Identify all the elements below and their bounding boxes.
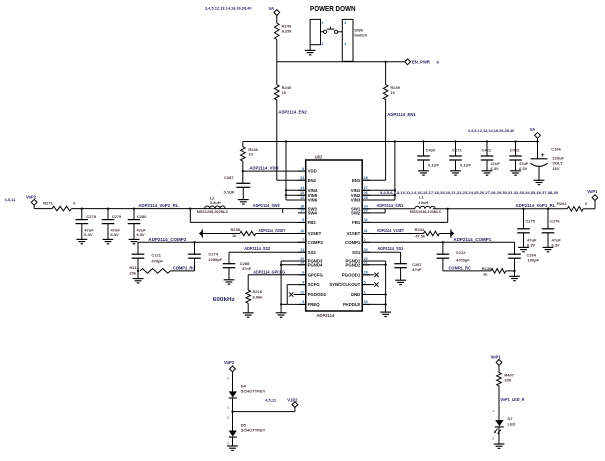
capacitor C287 0.1UF — [242, 171, 244, 183]
resistor R240 10 — [275, 85, 280, 100]
svg-text:C106: C106 — [551, 146, 561, 151]
ground (diode stack) — [227, 445, 238, 447]
capacitor C121 470pF — [137, 242, 139, 254]
wire SW1 — [362, 208, 415, 210]
svg-text:PGOOD1: PGOOD1 — [342, 272, 361, 277]
wire VoP2 rail — [71, 208, 305, 210]
switch SW6 right body — [342, 19, 353, 61]
svg-text:EN2: EN2 — [308, 178, 317, 183]
svg-text:C274: C274 — [208, 252, 218, 257]
svg-text:L1: L1 — [419, 195, 424, 200]
wire left VIN drop — [285, 142, 287, 201]
svg-text:SS2: SS2 — [308, 250, 317, 255]
svg-text:7: 7 — [302, 238, 304, 242]
junction diode node — [231, 410, 233, 412]
svg-text:D5: D5 — [241, 422, 247, 427]
junction VIN/C272 — [454, 140, 456, 142]
capacitor C106 220uF polarized — [537, 142, 539, 159]
svg-text:6.3V: 6.3V — [527, 242, 536, 247]
pin 24 SW1 (right) — [362, 208, 370, 210]
svg-text:3: 3 — [344, 42, 346, 46]
resistor R235 1k — [240, 231, 256, 236]
svg-text:2: 2 — [364, 238, 366, 242]
svg-text:4: 4 — [344, 21, 346, 25]
svg-text:16V: 16V — [552, 166, 559, 171]
switch pushbutton actuator — [327, 28, 335, 30]
junction VIN/C422 — [514, 140, 516, 142]
wire tie to R235 — [202, 233, 240, 235]
svg-text:3,4,5,6,7,8,10,11,14,16,15,17,: 3,4,5,6,7,8,10,11,14,16,15,17,18,19,20,2… — [380, 190, 558, 195]
wire bus to R240 — [276, 62, 278, 85]
wire FB2 sense — [189, 209, 191, 223]
svg-text:3: 3 — [302, 300, 304, 304]
node tie symbol (V1SET) — [450, 229, 452, 237]
ground (C288) — [224, 279, 235, 281]
wire EN2 to pin 13 — [276, 100, 278, 180]
svg-text:R216: R216 — [253, 289, 263, 294]
capacitor C275 47uF 6.3V — [523, 209, 525, 229]
svg-text:6: 6 — [302, 271, 304, 275]
ground (R216) — [243, 312, 254, 314]
wire SS2 — [229, 251, 306, 253]
svg-text:ADP2114_SW1: ADP2114_SW1 — [377, 203, 405, 208]
svg-text:COMP2: COMP2 — [308, 240, 324, 245]
ground (C287) — [238, 199, 249, 201]
pin 4 SCFG (left) — [298, 284, 306, 286]
svg-text:VA: VA — [530, 127, 536, 132]
wire VIN5 stub — [286, 194, 306, 196]
resistor R130 1k — [491, 269, 506, 274]
svg-text:C420: C420 — [426, 147, 436, 152]
svg-text:ADP2114_SS2: ADP2114_SS2 — [244, 246, 271, 251]
wire VoP2 to rail — [33, 205, 35, 208]
resistor R216 8.06k — [246, 290, 251, 303]
junction VIN/C420 — [422, 140, 424, 142]
capacitor C276 47uF 6.3V — [547, 209, 549, 229]
resistor R243 8.25k — [275, 23, 280, 40]
ground (C420) — [418, 170, 429, 172]
wire pin31 to R234 — [362, 233, 423, 235]
svg-text:PGND4: PGND4 — [308, 262, 323, 267]
svg-text:C278: C278 — [86, 214, 96, 219]
svg-text:3,4,5,12,13,14,16,26,28,40: 3,4,5,12,13,14,16,26,28,40 — [205, 6, 252, 11]
wire VIN3 stub — [362, 199, 395, 201]
junction VIN4 — [285, 189, 287, 191]
svg-text:VA: VA — [269, 6, 275, 11]
junction PADDLE/rail — [384, 303, 386, 305]
svg-text:R271: R271 — [43, 201, 53, 206]
wire GPCFG — [248, 274, 306, 276]
junction VIN2 — [394, 194, 396, 196]
svg-text:+: + — [541, 152, 545, 159]
svg-text:COMP1_RC: COMP1_RC — [449, 266, 472, 271]
svg-text:11: 11 — [300, 248, 304, 252]
capacitor C279 47uF 6.3V — [107, 209, 109, 220]
pin 23 SW2 (right) — [362, 212, 370, 214]
wire R246 drop — [242, 142, 244, 147]
junction VIN1 — [394, 189, 396, 191]
pin 1 GND (right) — [362, 294, 370, 296]
junction VIN/C421 — [486, 140, 488, 142]
svg-text:47.5k: 47.5k — [415, 234, 426, 239]
resistor R407 200 — [497, 373, 502, 386]
svg-text:SW2: SW2 — [351, 211, 361, 216]
svg-text:6.3V: 6.3V — [111, 232, 120, 237]
svg-text:C422: C422 — [510, 147, 520, 152]
pin 8 VDD (left) — [298, 170, 306, 172]
switch SW6 left body — [310, 19, 320, 44]
svg-text:ADP2114: ADP2114 — [316, 313, 335, 318]
svg-text:1k: 1k — [483, 271, 488, 276]
diode D5 SCHOTTKY — [229, 431, 237, 437]
wire FB1 sense — [447, 209, 449, 223]
pin 32 FB1 (right) — [362, 221, 370, 223]
pin 31 V1SET (right) — [362, 232, 370, 234]
svg-text:6.3V: 6.3V — [552, 242, 561, 247]
wire SW3/SW4 link — [282, 209, 284, 213]
wire EN_PWR bus — [277, 61, 405, 63]
svg-text:16: 16 — [300, 196, 304, 200]
junction COMP1/C122 — [442, 241, 444, 243]
ground (C121 node) — [137, 271, 139, 279]
svg-text:C280: C280 — [137, 214, 147, 219]
svg-text:26: 26 — [364, 191, 368, 195]
svg-text:1: 1 — [364, 290, 366, 294]
wire node to D5 — [232, 412, 234, 431]
svg-text:VDD: VDD — [308, 169, 317, 174]
junction VIN/right drop — [394, 140, 396, 142]
resistor R234 47.5k — [424, 231, 440, 236]
capacitor C422 47uF 6.3V — [515, 142, 517, 157]
svg-text:FREQ: FREQ — [308, 302, 321, 307]
svg-text:V1SET: V1SET — [347, 231, 361, 236]
svg-text:5: 5 — [364, 280, 366, 284]
svg-text:1: 1 — [322, 21, 324, 25]
svg-text:ADP2114_GPCFG: ADP2114_GPCFG — [253, 270, 285, 275]
wire GND pin — [362, 294, 385, 296]
node tie symbol (V2SET) — [201, 229, 203, 237]
svg-text:4,5,11: 4,5,11 — [265, 398, 277, 403]
svg-text:10: 10 — [248, 152, 253, 157]
no-connect X pin 29 — [362, 274, 374, 276]
junction C121/R213/gnd — [137, 270, 139, 272]
inductor L1 10uH — [415, 206, 435, 209]
pin 33 PADDLE (right) — [362, 303, 370, 305]
wire VIN6 stub — [286, 199, 306, 201]
wire left PGND rail — [281, 260, 306, 262]
capacitor C420 0.1UF — [423, 142, 425, 157]
capacitor C421 47uF 6.3V — [486, 142, 488, 157]
wire R213 to C274 — [170, 270, 194, 272]
svg-text:R235: R235 — [231, 227, 241, 232]
ground (C421) — [482, 170, 493, 172]
wire C122 to R130 — [443, 270, 491, 272]
diode D4 SCHOTTKY — [229, 391, 237, 397]
svg-text:VIN6: VIN6 — [308, 198, 318, 203]
junction rail/C276 — [547, 208, 549, 210]
wire EN1 to pin 28 — [385, 100, 387, 181]
svg-text:32: 32 — [364, 218, 368, 222]
svg-text:6.3V: 6.3V — [137, 232, 146, 237]
svg-text:13: 13 — [300, 176, 304, 180]
pin 13 EN2 (left) — [298, 179, 306, 181]
op-amp U62 ADP2114 body — [306, 160, 363, 311]
wire switch to ground — [309, 45, 311, 51]
svg-text:V2SET: V2SET — [308, 231, 322, 236]
svg-text:31: 31 — [364, 229, 368, 233]
svg-text:FB2: FB2 — [308, 220, 317, 225]
ground (left PGND) — [276, 312, 287, 314]
svg-text:0.1UF: 0.1UF — [224, 190, 235, 195]
svg-text:10uH: 10uH — [419, 200, 429, 205]
svg-text:R213: R213 — [129, 265, 139, 270]
pin 20 PGND3 (left) — [298, 260, 306, 262]
svg-text:ADP2114_EN2: ADP2114_EN2 — [278, 109, 307, 114]
wire VoP1 rail — [433, 208, 568, 210]
wire right VIN drop — [394, 142, 396, 201]
svg-text:20k: 20k — [129, 271, 136, 276]
wire contact to right body — [338, 31, 343, 33]
svg-text:VoP2: VoP2 — [26, 195, 37, 200]
switch contact circle right — [334, 30, 337, 33]
svg-text:6.3V: 6.3V — [519, 166, 528, 171]
svg-text:D4: D4 — [241, 383, 247, 388]
junction COMP2/C274 — [193, 241, 195, 243]
no-connect X pin 5 — [362, 284, 374, 286]
pin 7 COMP2 (left) — [298, 241, 306, 243]
pin 18 SW3 (left) — [298, 208, 306, 210]
junction rail/C278 — [81, 207, 83, 209]
ground (C278) — [76, 238, 87, 240]
svg-text:2200pF: 2200pF — [208, 257, 222, 262]
ground (right PGND) — [380, 311, 391, 313]
resistor R271 0 — [52, 206, 71, 211]
svg-text:0.1UF: 0.1UF — [460, 163, 471, 168]
svg-text:2: 2 — [322, 42, 324, 46]
capacitor C288 47nF — [223, 263, 236, 265]
wire R130 to node — [506, 270, 515, 272]
svg-text:SS1: SS1 — [352, 250, 361, 255]
svg-text:17: 17 — [300, 209, 304, 213]
svg-text:28: 28 — [364, 176, 368, 180]
svg-text:9: 9 — [302, 218, 304, 222]
wire SS1 — [362, 251, 400, 253]
capacitor C122 4700pF — [442, 242, 444, 254]
wire VIN1 stub — [362, 189, 395, 191]
svg-text:C272: C272 — [452, 147, 462, 152]
pin 29 PGOOD1 (right) — [362, 274, 370, 276]
svg-text:D7: D7 — [508, 416, 514, 421]
wire R216 to ground — [247, 303, 249, 313]
svg-text:C279: C279 — [112, 214, 122, 219]
wire VoP1 to R407 — [498, 365, 500, 372]
wire bus to R239 — [385, 62, 387, 85]
svg-text:12: 12 — [300, 290, 304, 294]
wire SW2 link — [362, 212, 385, 214]
svg-text:ADP2114_V2SET: ADP2114_V2SET — [259, 228, 286, 233]
pin 14 VIN4 (left) — [298, 189, 306, 191]
pin 22 PGND1 (right) — [362, 260, 370, 262]
pin 2 COMP1 (right) — [362, 241, 370, 243]
svg-text:29: 29 — [364, 271, 368, 275]
ground (C275) — [518, 246, 529, 248]
svg-text:3.3uH: 3.3uH — [210, 200, 221, 205]
junction VIN/left drop — [285, 140, 287, 142]
svg-text:C275: C275 — [525, 218, 535, 223]
pin 6 GPCFG (left) — [298, 274, 306, 276]
svg-text:8.06k: 8.06k — [253, 295, 264, 300]
svg-text:ADP2114_COMP2: ADP2114_COMP2 — [148, 237, 187, 242]
svg-text:30: 30 — [364, 248, 368, 252]
svg-text:ADP2114_VoP1_RL: ADP2114_VoP1_RL — [516, 203, 556, 208]
wire COMP1 — [362, 241, 514, 243]
ground (C272) — [450, 170, 461, 172]
wire VoP2 to D4 — [232, 372, 234, 392]
svg-text:R202: R202 — [557, 201, 567, 206]
capacitor C280 47uF 6.3V — [133, 209, 135, 220]
svg-text:15: 15 — [300, 191, 304, 195]
wire R234 to tie — [439, 233, 451, 235]
capacitor C267 47nF — [394, 263, 407, 265]
svg-text:100pF: 100pF — [528, 257, 540, 262]
ground (C264 node) — [514, 271, 516, 276]
svg-text:C122: C122 — [456, 250, 466, 255]
pin 27 VIN1 (right) — [362, 189, 370, 191]
svg-text:Switch: Switch — [354, 32, 367, 37]
svg-text:R130: R130 — [482, 266, 492, 271]
pin 10 V2SET (left) — [298, 232, 306, 234]
svg-text:PADDLE: PADDLE — [343, 302, 360, 307]
wire D4 to node — [232, 398, 234, 412]
wire R202 to VoP1 — [583, 208, 595, 210]
pin 26 VIN2 (right) — [362, 194, 370, 196]
svg-text:200: 200 — [504, 378, 511, 383]
svg-text:COMP2_RC: COMP2_RC — [173, 266, 196, 271]
wire VIN2 stub — [362, 194, 395, 196]
svg-text:SCHOTTKEY: SCHOTTKEY — [241, 389, 266, 394]
pin 3 FREQ (left) — [298, 303, 306, 305]
wire VA drop — [537, 138, 539, 141]
resistor R239 10 — [383, 85, 388, 100]
svg-text:SCHOTTKEY: SCHOTTKEY — [241, 428, 266, 433]
pin 19 PGND4 (left) — [298, 264, 306, 266]
wire VIN4 stub — [286, 189, 306, 191]
svg-text:U62: U62 — [315, 154, 323, 159]
pin 9 FB2 (left) — [298, 221, 306, 223]
ground (C106) — [534, 179, 545, 181]
svg-text:C276: C276 — [550, 218, 560, 223]
pin 25 VIN3 (right) — [362, 199, 370, 201]
svg-text:8: 8 — [302, 167, 304, 171]
svg-text:6.3V: 6.3V — [491, 166, 500, 171]
svg-text:SYNC/CLKOUT: SYNC/CLKOUT — [329, 282, 360, 287]
svg-text:25: 25 — [364, 196, 368, 200]
svg-text:470pF: 470pF — [151, 258, 163, 263]
junction rail/C280 — [133, 207, 135, 209]
svg-text:PGND2: PGND2 — [345, 262, 360, 267]
svg-text:GND: GND — [351, 292, 361, 297]
svg-text:SW4: SW4 — [308, 211, 318, 216]
ground (LED) — [494, 443, 505, 445]
wire R243 to bus — [276, 40, 278, 62]
svg-text:3,4,5,12,13,14,16,26,28,40: 3,4,5,12,13,14,16,26,28,40 — [468, 128, 515, 133]
svg-text:VIN3: VIN3 — [351, 198, 361, 203]
svg-text:VoP2: VoP2 — [224, 360, 235, 365]
svg-text:ADP2114_EN1: ADP2114_EN1 — [387, 112, 416, 117]
junction VIN5 — [285, 194, 287, 196]
junction rail/C279 — [107, 207, 109, 209]
svg-text:FB1: FB1 — [352, 220, 361, 225]
capacitor C272 0.1UF — [455, 142, 457, 157]
ground (C276) — [543, 246, 554, 248]
LED D7 — [495, 420, 503, 426]
capacitor C274 2200pF — [194, 242, 196, 254]
capacitor C264 100pF — [508, 253, 521, 255]
svg-text:SCFG: SCFG — [308, 282, 321, 287]
svg-text:27: 27 — [364, 186, 368, 190]
svg-text:VoP1: VoP1 — [587, 189, 598, 194]
junction EN_PWR/R239 — [384, 61, 386, 63]
ground (switch) — [305, 49, 316, 51]
junction C264/R130/gnd — [513, 270, 515, 272]
pin 28 EN1 (right) — [362, 179, 370, 181]
svg-text:47nF: 47nF — [412, 267, 422, 272]
svg-text:ADP2114_COMP1: ADP2114_COMP1 — [453, 237, 492, 242]
svg-text:6.3V: 6.3V — [84, 232, 93, 237]
svg-text:33: 33 — [364, 300, 368, 304]
ground (C267) — [395, 279, 406, 281]
svg-text:10: 10 — [300, 229, 304, 233]
pin 12 PGOOD2 (left) — [298, 294, 306, 296]
inductor L2 3.3uH — [205, 206, 225, 209]
junction GND/rail — [384, 293, 386, 295]
junction PGND2 right — [384, 264, 386, 266]
wire VA to R243 — [276, 15, 278, 23]
wire node to V1P2 — [233, 411, 295, 413]
svg-text:ADP2114_VDD: ADP2114_VDD — [249, 166, 278, 171]
ground (C422) — [510, 170, 521, 172]
pin 30 SS1 (right) — [362, 251, 370, 253]
svg-text:0.1UF: 0.1UF — [428, 163, 439, 168]
wire R407 to D7 — [498, 386, 500, 420]
resistor R246 10 — [241, 147, 246, 161]
junction FREQ/PGND rail — [280, 303, 282, 305]
svg-text:V1P2: V1P2 — [287, 398, 298, 403]
svg-text:C287: C287 — [224, 175, 234, 180]
wire FREQ — [281, 303, 306, 305]
pin 15 VIN5 (left) — [298, 194, 306, 196]
svg-text:47nF: 47nF — [242, 266, 252, 271]
svg-text:MSS1238-302NLC: MSS1238-302NLC — [197, 210, 229, 214]
wire PADDLE pin — [362, 303, 385, 305]
pin 5 SYNC/CLKOUT (right) — [362, 284, 370, 286]
svg-text:VoP1_LED_R: VoP1_LED_R — [500, 397, 524, 402]
wire R246 to VDD — [242, 161, 244, 171]
capacitor C278 47uF 6.3V — [81, 209, 83, 220]
svg-text:8.25k: 8.25k — [282, 28, 293, 33]
svg-text:10: 10 — [282, 90, 287, 95]
switch contact circle left — [323, 30, 326, 33]
wire COMP2 — [138, 241, 306, 243]
svg-text:EN_PWR: EN_PWR — [412, 60, 430, 65]
wire VDD to pin 8 — [243, 170, 306, 172]
svg-text:C421: C421 — [482, 147, 492, 152]
pin 11 SS2 (left) — [298, 251, 306, 253]
svg-text:ADP2114_SW2: ADP2114_SW2 — [253, 203, 281, 208]
wire SCFG — [287, 284, 306, 286]
svg-text:ADP2114_SS1: ADP2114_SS1 — [377, 246, 404, 251]
svg-text:POWER DOWN: POWER DOWN — [310, 4, 356, 13]
